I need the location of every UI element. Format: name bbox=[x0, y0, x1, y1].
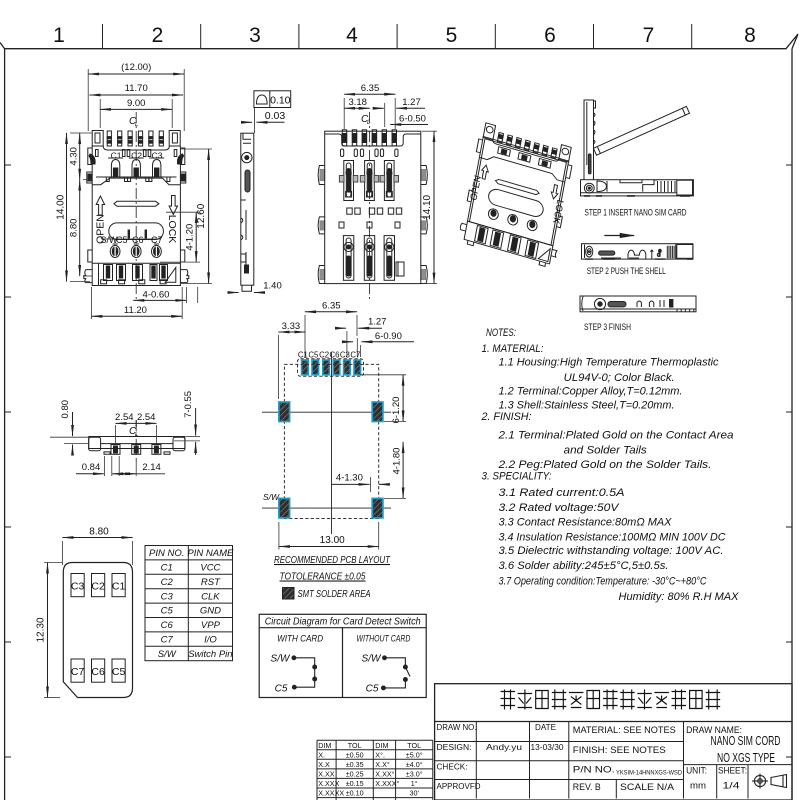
OPEN arrow bbox=[96, 196, 104, 215]
STEP 1 open shell vertical bbox=[581, 100, 694, 196]
svg-text:C1: C1 bbox=[298, 351, 308, 360]
svg-text:7: 7 bbox=[643, 24, 655, 47]
svg-text:0.03: 0.03 bbox=[265, 110, 286, 122]
svg-text:C5: C5 bbox=[112, 666, 126, 678]
svg-text:12.60: 12.60 bbox=[196, 203, 207, 228]
svg-text:11.20: 11.20 bbox=[124, 305, 147, 316]
mid side view body bbox=[89, 437, 185, 455]
svg-text:C5: C5 bbox=[161, 606, 174, 617]
svg-text:2.54: 2.54 bbox=[137, 412, 156, 423]
svg-text:PIN NO.: PIN NO. bbox=[149, 548, 184, 559]
svg-text:CLK: CLK bbox=[201, 591, 220, 602]
svg-text:13-03/30: 13-03/30 bbox=[531, 742, 564, 752]
svg-text:RST: RST bbox=[201, 577, 221, 588]
svg-text:TOTOLERANCE ±0.05: TOTOLERANCE ±0.05 bbox=[280, 571, 366, 583]
dim 14.00 bbox=[66, 133, 68, 282]
bottom contact zone bbox=[84, 263, 189, 285]
svg-text:8: 8 bbox=[744, 24, 756, 47]
column numbers 1-8 bbox=[53, 24, 756, 47]
svg-text:C5: C5 bbox=[308, 351, 319, 360]
svg-text:LOCK: LOCK bbox=[166, 215, 178, 244]
svg-text:CHECK:: CHECK: bbox=[437, 762, 468, 772]
pin table bbox=[145, 546, 233, 661]
svg-text:STEP 3 FINISH: STEP 3 FINISH bbox=[584, 322, 631, 332]
svg-text:C6: C6 bbox=[330, 351, 340, 360]
company name (CJK) bbox=[501, 690, 721, 710]
svg-text:DATE: DATE bbox=[535, 722, 556, 732]
svg-text:C2: C2 bbox=[161, 577, 174, 588]
title block grid bbox=[435, 684, 792, 800]
STEP 2 push arrow bbox=[604, 235, 634, 237]
tray slot bbox=[109, 223, 164, 240]
projection symbols bbox=[752, 774, 787, 789]
svg-text:±3.0°: ±3.0° bbox=[406, 770, 423, 779]
circuit diagram box bbox=[259, 614, 426, 697]
STEP 2 base bbox=[582, 244, 694, 259]
svg-text:0.10: 0.10 bbox=[270, 95, 291, 107]
svg-text:1.40: 1.40 bbox=[263, 281, 282, 292]
svg-text:3.5 Dielectric withstanding: 3.5 Dielectric withstanding voltage: 100… bbox=[499, 545, 724, 557]
svg-text:X.X°: X.X° bbox=[375, 760, 390, 769]
PCB dashed outline bbox=[284, 364, 378, 518]
svg-text:±0.50: ±0.50 bbox=[346, 750, 364, 759]
svg-text:and Solder Tails: and Solder Tails bbox=[564, 445, 648, 457]
svg-text:UNIT:: UNIT: bbox=[686, 766, 707, 777]
side ears bbox=[87, 148, 186, 262]
svg-text:3.33: 3.33 bbox=[282, 321, 301, 332]
svg-text:GND: GND bbox=[200, 606, 221, 617]
feature control frame 0.10 bbox=[254, 91, 291, 108]
svg-text:3.3 Contact Resistance:80mΩ: 3.3 Contact Resistance:80mΩ MAX bbox=[499, 516, 673, 528]
svg-text:NO XGS TYPE: NO XGS TYPE bbox=[717, 751, 775, 765]
svg-text:5: 5 bbox=[446, 24, 458, 47]
svg-text:1: 1 bbox=[53, 24, 65, 47]
SMT SOLDER AREA bbox=[283, 588, 295, 600]
svg-text:Switch Pin: Switch Pin bbox=[188, 649, 232, 660]
svg-text:14.00: 14.00 bbox=[56, 194, 67, 219]
svg-text:C6: C6 bbox=[161, 620, 174, 631]
svg-text:1.3 Shell:Stainless Steel,T=: 1.3 Shell:Stainless Steel,T=0.20mm. bbox=[499, 400, 675, 412]
svg-text:X.XX: X.XX bbox=[318, 770, 335, 779]
svg-text:9.00: 9.00 bbox=[127, 98, 146, 109]
svg-text:mm: mm bbox=[690, 781, 706, 792]
view B body bbox=[318, 130, 427, 284]
svg-text:C7: C7 bbox=[350, 351, 360, 360]
tolerance table bbox=[317, 740, 433, 800]
title block labels bbox=[437, 722, 564, 791]
svg-text:APPROVFD: APPROVFD bbox=[437, 781, 481, 791]
svg-text:DRAW NO.: DRAW NO. bbox=[437, 722, 477, 732]
svg-text:C3: C3 bbox=[152, 151, 163, 161]
svg-text:UL94V-0; Color Black.: UL94V-0; Color Black. bbox=[564, 372, 675, 384]
svg-text:FINISH: SEE NOTES: FINISH: SEE NOTES bbox=[573, 745, 666, 756]
dim 12.30 bbox=[47, 563, 49, 698]
pad row dashed outline bbox=[298, 359, 364, 377]
svg-text:2: 2 bbox=[152, 24, 164, 47]
svg-text:X.XX°: X.XX° bbox=[375, 770, 394, 779]
svg-text:SHEET:: SHEET: bbox=[718, 766, 747, 777]
svg-text:±0.25: ±0.25 bbox=[346, 770, 364, 779]
STEP 1 sim card diagonal bbox=[593, 106, 689, 155]
svg-text:C5: C5 bbox=[116, 235, 128, 245]
svg-text:3.18: 3.18 bbox=[348, 97, 367, 108]
svg-text:(12.00): (12.00) bbox=[121, 62, 151, 73]
extension lines top bbox=[88, 69, 184, 131]
svg-text:MATERIAL: SEE NOTES: MATERIAL: SEE NOTES bbox=[573, 725, 676, 736]
svg-text:VPP: VPP bbox=[201, 620, 221, 631]
svg-text:12.30: 12.30 bbox=[36, 617, 47, 642]
svg-text:4-0.60: 4-0.60 bbox=[143, 290, 170, 301]
notes text block bbox=[481, 327, 740, 603]
svg-text:1.1 Housing:High Temperature: 1.1 Housing:High Temperature Thermoplast… bbox=[499, 357, 719, 369]
view A connector body bbox=[92, 131, 180, 264]
svg-text:30': 30' bbox=[410, 789, 420, 798]
LOCK arrow bbox=[169, 196, 177, 215]
svg-text:4-1.20: 4-1.20 bbox=[184, 224, 195, 251]
PCB corner pads bbox=[279, 402, 290, 422]
sim pads bbox=[71, 574, 125, 683]
svg-text:6.35: 6.35 bbox=[361, 83, 380, 94]
svg-text:TOL: TOL bbox=[407, 741, 421, 750]
mid side view centerline bbox=[135, 420, 137, 462]
dim 9.00 bbox=[100, 108, 172, 110]
svg-text:Humidity: 80% R.H MAX: Humidity: 80% R.H MAX bbox=[619, 591, 740, 603]
svg-text:NANO SIM CORD: NANO SIM CORD bbox=[711, 734, 781, 748]
svg-text:WITHOUT CARD: WITHOUT CARD bbox=[356, 634, 410, 644]
svg-text:X.: X. bbox=[318, 750, 325, 759]
svg-text:TOL: TOL bbox=[348, 741, 362, 750]
PCB pad labels bbox=[298, 351, 360, 360]
svg-text:C3: C3 bbox=[161, 591, 174, 602]
side view body bbox=[241, 133, 254, 291]
3D isometric view bbox=[458, 121, 576, 269]
svg-text:C2: C2 bbox=[131, 151, 142, 161]
dim 4-1.20 bbox=[195, 212, 197, 262]
svg-text:0.80: 0.80 bbox=[60, 400, 71, 419]
svg-text:L: L bbox=[135, 122, 138, 128]
svg-text:DIM: DIM bbox=[375, 741, 388, 750]
svg-text:DESIGN:: DESIGN: bbox=[437, 742, 472, 752]
dim 11.70 bbox=[89, 94, 183, 96]
svg-text:±4.0°: ±4.0° bbox=[406, 760, 423, 769]
svg-text:Andy.yu: Andy.yu bbox=[486, 742, 522, 752]
svg-text:C1: C1 bbox=[161, 563, 173, 574]
dim 4.30 bbox=[79, 133, 81, 180]
svg-text:VCC: VCC bbox=[200, 563, 220, 574]
svg-text:4-1.30: 4-1.30 bbox=[336, 473, 363, 484]
svg-text:NOTES:: NOTES: bbox=[486, 327, 516, 339]
dim 13.00 bbox=[279, 546, 379, 548]
dim 11.20 bbox=[91, 315, 182, 317]
svg-text:2.54: 2.54 bbox=[115, 412, 134, 423]
svg-text:C1: C1 bbox=[112, 581, 126, 593]
dim 8.80 bbox=[79, 180, 81, 276]
svg-text:X.XXX°: X.XXX° bbox=[375, 779, 399, 788]
dim 8.80 (sim card) bbox=[63, 537, 133, 539]
svg-text:S/W: S/W bbox=[271, 654, 291, 665]
svg-text:C1: C1 bbox=[111, 151, 122, 161]
svg-text:S/W: S/W bbox=[158, 649, 177, 660]
svg-text:PIN NAME: PIN NAME bbox=[187, 548, 234, 559]
svg-text:STEP 1 INSERT NANO SIM CARD: STEP 1 INSERT NANO SIM CARD bbox=[585, 207, 687, 217]
svg-text:SCALE N/A: SCALE N/A bbox=[620, 782, 675, 793]
STEP 3 finished assembly bbox=[580, 296, 696, 312]
STEP 1 base bbox=[581, 180, 694, 196]
svg-text:C3: C3 bbox=[71, 581, 85, 593]
svg-text:8.80: 8.80 bbox=[89, 527, 109, 538]
svg-text:X.XXXX: X.XXXX bbox=[318, 789, 344, 798]
sim card outline bbox=[63, 563, 132, 698]
svg-text:6.35: 6.35 bbox=[322, 301, 341, 312]
svg-text:3.7 Operating condition:Temp: 3.7 Operating condition:Temperature: -30… bbox=[499, 576, 707, 588]
dim 14.10 bbox=[433, 131, 435, 283]
svg-text:C3: C3 bbox=[340, 351, 350, 360]
svg-text:L: L bbox=[135, 432, 138, 438]
svg-text:RECOMMENDED PCB LAYOUT: RECOMMENDED PCB LAYOUT bbox=[274, 554, 391, 566]
contacts C1 C2 C3 bbox=[108, 158, 164, 177]
svg-text:6-0.90: 6-0.90 bbox=[375, 331, 402, 342]
svg-text:6-0.50: 6-0.50 bbox=[399, 113, 426, 124]
svg-text:3.2 Rated voltage:50V: 3.2 Rated voltage:50V bbox=[499, 502, 621, 514]
svg-text:SMT SOLDER AREA: SMT SOLDER AREA bbox=[298, 589, 371, 600]
dim 4-0.60 bbox=[133, 299, 186, 301]
svg-text:±0.10: ±0.10 bbox=[346, 789, 364, 798]
svg-text:4: 4 bbox=[346, 24, 358, 47]
svg-text:7-0.55: 7-0.55 bbox=[183, 391, 194, 418]
PCB top pads bbox=[302, 360, 309, 375]
slot bar bbox=[114, 201, 159, 206]
svg-text:C2: C2 bbox=[91, 581, 105, 593]
svg-text:6: 6 bbox=[544, 24, 556, 47]
svg-text:2.2 Peg:Plated Gold on the: 2.2 Peg:Plated Gold on the Solder Tails. bbox=[497, 459, 711, 471]
svg-text:2.14: 2.14 bbox=[142, 462, 161, 473]
svg-text:S/W: S/W bbox=[263, 492, 280, 502]
svg-text:REV. B: REV. B bbox=[573, 782, 601, 793]
svg-text:1°: 1° bbox=[411, 779, 418, 788]
svg-text:3.4 Insulation Resistance:10: 3.4 Insulation Resistance:100MΩ MIN 100V… bbox=[499, 531, 726, 543]
svg-text:8.80: 8.80 bbox=[69, 219, 80, 238]
view B centerline bbox=[369, 112, 371, 300]
svg-text:11.70: 11.70 bbox=[125, 83, 148, 94]
svg-text:C6: C6 bbox=[91, 666, 105, 678]
svg-text:C7: C7 bbox=[161, 635, 174, 646]
svg-text:P/N NO.: P/N NO. bbox=[573, 765, 615, 776]
svg-text:DIM: DIM bbox=[318, 741, 331, 750]
svg-text:STEP 2 PUSH THE SHELL: STEP 2 PUSH THE SHELL bbox=[587, 266, 666, 276]
svg-text:±0.15: ±0.15 bbox=[346, 779, 364, 788]
svg-text:C2: C2 bbox=[319, 351, 329, 360]
oval contacts bbox=[110, 244, 161, 257]
svg-text:C5: C5 bbox=[275, 684, 288, 695]
svg-text:X°.: X°. bbox=[375, 750, 385, 759]
dim (12.00) bbox=[88, 73, 184, 75]
view A centerline bbox=[135, 112, 137, 302]
svg-text:C5: C5 bbox=[366, 684, 379, 695]
svg-text:I/O: I/O bbox=[204, 635, 217, 646]
svg-text:4-1.80: 4-1.80 bbox=[391, 448, 402, 475]
svg-text:1/4: 1/4 bbox=[723, 781, 741, 792]
svg-text:2.1 Terminal:Plated Gold on: 2.1 Terminal:Plated Gold on the Contact … bbox=[497, 429, 733, 441]
svg-text:13.00: 13.00 bbox=[320, 535, 345, 546]
svg-text:S/W: S/W bbox=[362, 654, 382, 665]
dim 6.35 bbox=[344, 93, 395, 95]
dim 12.60 bbox=[208, 149, 210, 284]
svg-text:±0.35: ±0.35 bbox=[346, 760, 364, 769]
svg-text:3. SPECIALITY:: 3. SPECIALITY: bbox=[482, 471, 552, 483]
svg-text:14.10: 14.10 bbox=[422, 194, 433, 219]
svg-text:4.30: 4.30 bbox=[69, 147, 80, 166]
svg-text:C7: C7 bbox=[71, 666, 85, 678]
PCB dims top bbox=[305, 311, 357, 313]
svg-text:2. FINISH:: 2. FINISH: bbox=[481, 411, 532, 423]
svg-text:1. MATERIAL:: 1. MATERIAL: bbox=[482, 343, 544, 355]
dim 3.18 bbox=[344, 107, 370, 109]
svg-text:1.2 Terminal:Copper Alloy,T=: 1.2 Terminal:Copper Alloy,T=0.12mm. bbox=[499, 386, 683, 398]
svg-text:1.27: 1.27 bbox=[402, 97, 421, 108]
svg-text:YKSIM-14HNNXGS-WSD: YKSIM-14HNNXGS-WSD bbox=[616, 770, 682, 777]
svg-text:3.6 Solder ability:245±5°C,5: 3.6 Solder ability:245±5°C,5±0.5s. bbox=[499, 560, 669, 572]
svg-text:WITH CARD: WITH CARD bbox=[277, 634, 323, 644]
svg-text:X.XXX: X.XXX bbox=[318, 779, 339, 788]
svg-text:6-1.20: 6-1.20 bbox=[391, 397, 402, 424]
svg-text:Circuit Diagram for Card D: Circuit Diagram for Card Detect Switch bbox=[265, 617, 421, 628]
PCB centerlines bbox=[262, 352, 391, 534]
svg-text:3: 3 bbox=[249, 24, 261, 47]
svg-text:0.84: 0.84 bbox=[82, 462, 101, 473]
svg-text:X.X: X.X bbox=[318, 760, 330, 769]
svg-text:1.27: 1.27 bbox=[368, 317, 387, 328]
svg-text:3.1 Rated current:0.5A: 3.1 Rated current:0.5A bbox=[499, 487, 625, 499]
svg-text:±5.0°: ±5.0° bbox=[406, 750, 423, 759]
svg-text:L: L bbox=[367, 120, 370, 126]
